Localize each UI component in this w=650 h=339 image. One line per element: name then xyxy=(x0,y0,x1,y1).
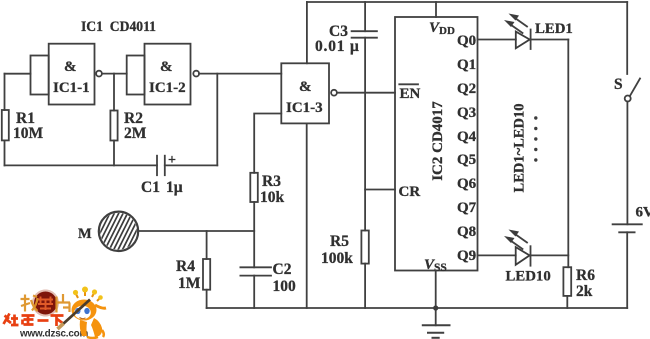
svg-text:R6: R6 xyxy=(576,267,595,284)
svg-text:Q9: Q9 xyxy=(457,248,476,264)
svg-text:Q1: Q1 xyxy=(457,57,476,73)
wire VDD drop xyxy=(435,2,437,17)
svg-text:R3: R3 xyxy=(262,173,281,190)
watermark mascot xyxy=(58,287,107,339)
svg-text:Q2: Q2 xyxy=(457,81,476,97)
wire C2 bottom xyxy=(253,276,255,308)
svg-text:C2: C2 xyxy=(273,261,292,278)
resistor R1 xyxy=(2,110,44,142)
svg-text:2k: 2k xyxy=(576,283,593,300)
svg-text:&: & xyxy=(64,59,77,75)
svg-text:100k: 100k xyxy=(321,250,353,267)
wire mic to R3 node xyxy=(138,230,254,232)
svg-text:&: & xyxy=(160,59,173,75)
svg-text:Q4: Q4 xyxy=(457,129,477,145)
wire Q9 out xyxy=(478,254,516,256)
wire IC1-1 out xyxy=(102,73,127,75)
svg-text:Q5: Q5 xyxy=(457,152,476,168)
svg-text:R5: R5 xyxy=(330,233,349,250)
wire R3 bottom xyxy=(253,202,255,267)
wire R1 bottom xyxy=(4,140,6,165)
LED LED10 xyxy=(504,230,551,285)
svg-text:10M: 10M xyxy=(13,125,44,142)
svg-text:Q6: Q6 xyxy=(457,176,477,192)
wire CR xyxy=(365,189,395,191)
svg-text:S: S xyxy=(614,76,623,93)
wire IC1-3 lower input xyxy=(254,114,281,173)
wire LED10 to rail xyxy=(531,254,569,256)
svg-text:DD: DD xyxy=(439,25,455,37)
capacitor C3 xyxy=(315,2,377,55)
wire R6 bottom xyxy=(566,296,568,308)
wire VSS down xyxy=(435,271,437,326)
wire Q0 out xyxy=(478,39,516,41)
battery 6V xyxy=(613,205,650,309)
LED LED1 xyxy=(504,14,573,50)
svg-text:Q3: Q3 xyxy=(457,105,476,121)
resistor R5 xyxy=(321,231,369,268)
watermark text weiku red xyxy=(4,314,64,327)
wire C1 up to IC1-2 out xyxy=(216,74,218,166)
ground xyxy=(423,325,450,338)
NAND gate IC1-3 xyxy=(281,63,337,123)
dots ellipsis xyxy=(534,116,537,161)
svg-text:IC1 CD4011: IC1 CD4011 xyxy=(81,19,156,35)
wire LED1 to right rail xyxy=(531,39,569,41)
svg-text:CR: CR xyxy=(399,184,421,200)
svg-text:C1: C1 xyxy=(141,179,160,196)
IC IC2 CD4017 xyxy=(395,17,478,274)
svg-text:Q8: Q8 xyxy=(457,224,476,240)
watermark char pian xyxy=(57,294,71,313)
svg-text:LED10: LED10 xyxy=(506,269,551,285)
pin EN xyxy=(399,84,420,102)
resistor R6 xyxy=(563,267,595,300)
wire C1 right xyxy=(165,164,218,166)
wire LED cathode rail down xyxy=(567,40,569,268)
wire IC1-2 out to IC1-3 xyxy=(199,73,281,75)
wire bottom rail xyxy=(207,307,628,309)
node junction dot xyxy=(433,305,438,310)
svg-text:R4: R4 xyxy=(176,258,195,275)
svg-text:&: & xyxy=(299,79,312,95)
NAND gate IC1-1 (IC1 CD4011) xyxy=(31,44,102,105)
resistor R3 xyxy=(250,173,284,206)
watermark badge xyxy=(32,290,58,316)
svg-text:IC1-3: IC1-3 xyxy=(286,100,323,116)
svg-text:IC1-1: IC1-1 xyxy=(53,80,90,96)
watermark char zhao xyxy=(21,295,38,312)
svg-text:IC2 CD4017: IC2 CD4017 xyxy=(430,101,446,181)
wire R1 top xyxy=(4,74,6,110)
wire R5 bottom xyxy=(364,264,366,308)
svg-text:www.dzsc.com: www.dzsc.com xyxy=(19,329,88,339)
svg-text:1M: 1M xyxy=(178,275,201,292)
switch S xyxy=(614,2,640,224)
wire R2 top xyxy=(113,74,115,111)
svg-text:0.01 μ: 0.01 μ xyxy=(315,38,360,55)
NAND gate IC1-2 xyxy=(127,44,199,105)
resistor R2 xyxy=(110,110,146,142)
svg-text:10k: 10k xyxy=(260,189,285,206)
resistor R4 xyxy=(176,258,210,292)
wire C3 down / R5 node line xyxy=(364,38,366,231)
svg-text:EN: EN xyxy=(400,86,421,102)
svg-text:LED1~LED10: LED1~LED10 xyxy=(511,104,527,193)
wire input IC1-1 xyxy=(5,73,31,75)
wire R2 bottom xyxy=(113,141,115,166)
capacitor C2 xyxy=(240,261,296,295)
svg-text:100: 100 xyxy=(273,278,297,295)
microphone M xyxy=(78,212,150,251)
svg-text:LED1: LED1 xyxy=(535,21,573,37)
wire IC1-3 top to rail xyxy=(306,2,308,63)
svg-text:6V: 6V xyxy=(636,205,650,221)
capacitor C1 xyxy=(141,153,183,196)
svg-text:M: M xyxy=(78,226,92,242)
wire R4 top xyxy=(206,231,208,259)
wire bottom-left rail xyxy=(5,164,158,166)
wire top rail xyxy=(307,1,627,3)
svg-text:IC1-2: IC1-2 xyxy=(149,80,186,96)
svg-text:2M: 2M xyxy=(124,125,147,142)
wire IC1-3 out to EN xyxy=(337,92,395,94)
wire IC1-3 bottom to ground rail xyxy=(306,123,308,308)
svg-text:Q7: Q7 xyxy=(457,200,477,216)
svg-text:Q0: Q0 xyxy=(457,33,476,49)
svg-text:1μ: 1μ xyxy=(166,179,183,196)
wire R4 bottom xyxy=(206,290,208,308)
